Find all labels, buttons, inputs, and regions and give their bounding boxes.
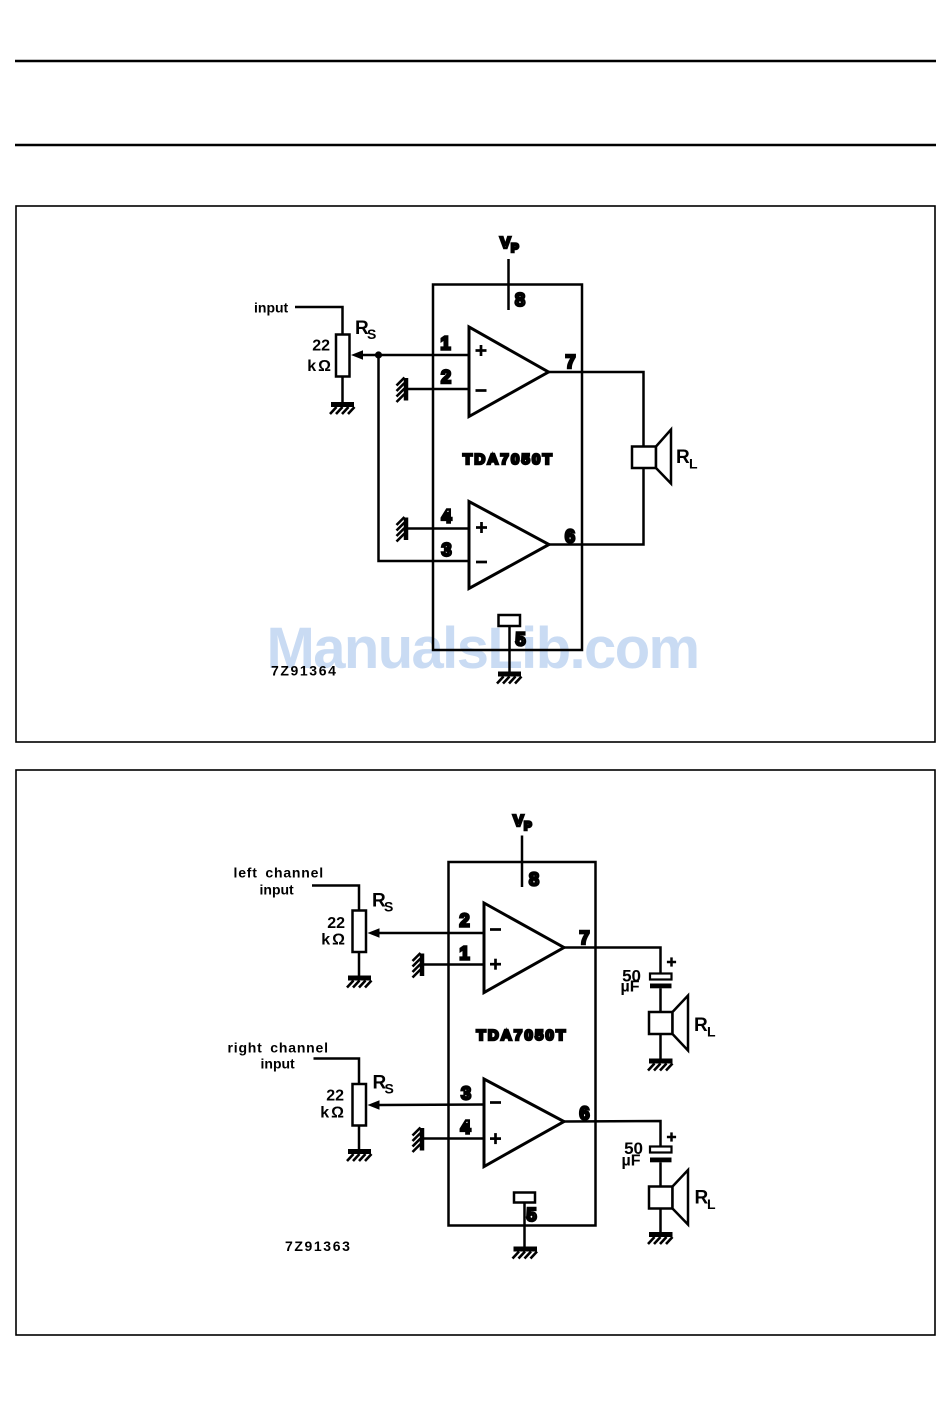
svg-text:8: 8 <box>515 290 525 310</box>
pin 5 internal resistor symbol (fig 2) <box>514 1193 535 1203</box>
resistor RS (fig 1) <box>336 335 350 377</box>
wire C2 to speaker (right) <box>659 1162 662 1186</box>
op-amp U1A plus input mark <box>476 345 487 356</box>
svg-text:L: L <box>707 1196 716 1212</box>
svg-text:7Z91363: 7Z91363 <box>285 1238 351 1254</box>
svg-text:kΩ: kΩ <box>321 932 347 949</box>
signal ground at pin 1 (fig 2) <box>413 953 423 978</box>
op-amp U2A plus input mark <box>490 959 501 970</box>
right channel input label <box>228 1040 329 1072</box>
op-amp U2B minus input mark <box>490 1101 501 1104</box>
op-amp U1B <box>469 502 549 589</box>
svg-text:R: R <box>676 447 690 468</box>
wire pin 1 to RS wiper <box>360 354 469 357</box>
IC U2 TDA7050T body <box>449 862 596 1226</box>
ground below RS (right) <box>347 1126 372 1162</box>
svg-text:S: S <box>367 326 376 342</box>
svg-text:P: P <box>511 243 519 255</box>
node Vp label (fig 2) <box>513 813 532 833</box>
svg-text:input: input <box>254 300 289 316</box>
svg-text:input: input <box>261 1056 296 1072</box>
capacitor C1 50uF plus mark <box>667 957 676 966</box>
ground below speaker (left) <box>648 1034 673 1071</box>
op-amp U1B minus input mark <box>476 561 487 564</box>
svg-text:3: 3 <box>441 540 451 560</box>
svg-text:µF: µF <box>621 979 640 996</box>
svg-text:L: L <box>707 1024 716 1040</box>
svg-text:left channel: left channel <box>234 865 324 881</box>
svg-text:1: 1 <box>459 944 469 964</box>
op-amp U1B plus input mark <box>476 522 487 533</box>
resistor RS label (right) <box>373 1073 394 1097</box>
wire pin 7 to coupling capacitor <box>564 948 661 974</box>
capacitor C2 50uF plus mark <box>667 1132 676 1141</box>
signal ground at pin 2 (fig 1) <box>397 378 407 403</box>
wire pin 5 to ground (fig 2) <box>523 1203 526 1248</box>
svg-text:TDA7050T: TDA7050T <box>463 451 554 468</box>
svg-text:kΩ: kΩ <box>320 1105 346 1122</box>
figure 1 frame <box>16 206 935 742</box>
wire Vp lead to pin 8 <box>507 259 510 310</box>
pin 5 internal resistor symbol (fig 1) <box>499 615 521 626</box>
node Vp label (fig 1) <box>500 235 519 255</box>
svg-text:input: input <box>260 882 295 898</box>
speaker RL label (right) <box>695 1188 717 1213</box>
watermark ManualsLib.com <box>267 620 699 678</box>
wire right input to RS top <box>314 1059 360 1085</box>
resistor RS label (fig 1) <box>355 318 376 342</box>
svg-text:7: 7 <box>579 928 589 948</box>
wiper arrow into RS (right) <box>368 1100 380 1110</box>
capacitor C1 50uF <box>650 974 672 989</box>
svg-text:8: 8 <box>529 870 539 890</box>
top rule 1 <box>15 60 936 63</box>
ground below RS (fig 1) <box>330 377 355 415</box>
wire pin 4 to signal ground (fig 2) <box>423 1137 484 1140</box>
svg-text:22: 22 <box>312 338 330 355</box>
left channel input label <box>234 865 324 898</box>
wire pin 7 to speaker top <box>549 372 644 447</box>
capacitor C2 50uF <box>650 1147 672 1163</box>
wire node to pin 3 <box>379 355 470 561</box>
wire pin 2 to RS wiper (left) <box>377 932 484 935</box>
svg-text:2: 2 <box>459 911 469 931</box>
wire Vp lead to pin 8 (fig 2) <box>521 836 524 888</box>
wiper arrow into RS (fig 1) <box>351 350 363 360</box>
svg-text:R: R <box>694 1015 708 1036</box>
svg-text:right channel: right channel <box>228 1040 329 1056</box>
resistor RS value 22 kOhm (right) <box>320 1088 346 1122</box>
svg-text:V: V <box>500 235 511 252</box>
svg-text:4: 4 <box>441 507 451 527</box>
op-amp U2A <box>484 903 564 993</box>
speaker RL label (left) <box>694 1015 716 1040</box>
op-amp U1A <box>469 327 549 417</box>
svg-text:V: V <box>513 813 524 830</box>
svg-text:3: 3 <box>461 1084 471 1104</box>
svg-text:S: S <box>384 899 393 915</box>
svg-text:S: S <box>385 1081 394 1097</box>
capacitor C1 value 50 uF <box>621 967 642 996</box>
ground below RS (left) <box>347 952 372 988</box>
svg-text:1: 1 <box>440 334 450 354</box>
resistor RS left channel <box>353 911 367 953</box>
wire C1 to speaker (left) <box>659 988 662 1012</box>
resistor RS value 22 kOhm (left) <box>321 915 347 949</box>
resistor RS value 22 kOhm (fig 1) <box>307 338 333 376</box>
wire pin 2 to signal ground <box>407 388 469 391</box>
wiper arrow into RS (left) <box>368 928 380 938</box>
speaker RL right channel <box>649 1170 688 1225</box>
resistor RS right channel <box>353 1084 367 1126</box>
svg-text:22: 22 <box>327 915 345 932</box>
figure 2 frame <box>16 770 935 1335</box>
svg-text:7: 7 <box>565 352 575 372</box>
svg-text:TDA7050T: TDA7050T <box>477 1027 568 1044</box>
svg-text:kΩ: kΩ <box>307 358 333 375</box>
top rule 2 <box>15 144 936 147</box>
ground at pin 5 (fig 2) <box>513 1249 538 1259</box>
resistor RS label (left) <box>372 891 393 915</box>
wire input to Rs top <box>295 307 343 335</box>
svg-text:2: 2 <box>441 367 451 387</box>
wire left input to RS top <box>312 886 359 911</box>
wire speaker bottom to pin 6 <box>549 468 644 545</box>
speaker RL left channel <box>649 996 688 1051</box>
speaker RL label (fig 1) <box>676 447 698 472</box>
ground below speaker (right) <box>648 1209 673 1245</box>
wire pin 5 to ground <box>508 626 511 672</box>
op-amp U2B plus input mark <box>490 1133 501 1144</box>
op-amp U2A minus input mark <box>490 928 501 931</box>
svg-text:4: 4 <box>460 1118 470 1138</box>
wire pin 1 to signal ground (fig 2) <box>423 963 484 966</box>
capacitor C2 value 50 uF <box>622 1139 644 1170</box>
IC U1 TDA7050T body <box>433 285 582 651</box>
signal ground at pin 4 (fig 2) <box>413 1128 423 1153</box>
node junction dot (fig 1) <box>375 351 382 358</box>
svg-text:P: P <box>524 821 532 833</box>
svg-text:5: 5 <box>526 1205 536 1225</box>
op-amp U2B <box>484 1079 564 1167</box>
wire pin 6 to coupling capacitor <box>564 1121 661 1147</box>
svg-text:22: 22 <box>326 1088 344 1105</box>
signal ground at pin 4 (fig 1) <box>397 517 407 542</box>
wire pin 4 to signal ground <box>407 527 469 530</box>
svg-text:µF: µF <box>622 1153 641 1170</box>
ground at pin 5 (fig 1) <box>497 674 522 684</box>
speaker RL (fig 1) <box>632 430 671 484</box>
wire pin 3 to RS wiper (right) <box>377 1103 484 1106</box>
op-amp U1A minus input mark <box>476 389 487 392</box>
svg-text:L: L <box>689 456 698 472</box>
